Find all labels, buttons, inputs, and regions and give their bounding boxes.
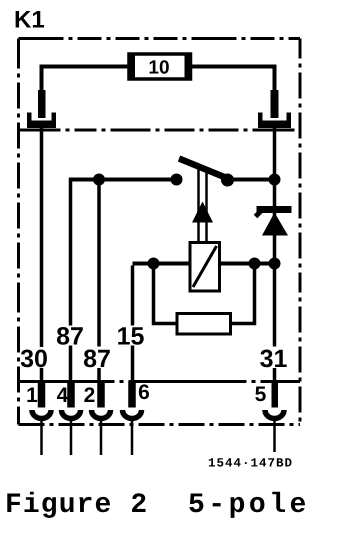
resistor 10 <box>128 53 192 81</box>
junction: pin2 tee on switch feed <box>93 174 105 186</box>
connector pin 2 <box>84 382 111 456</box>
svg-text:Figure 2: Figure 2 <box>5 490 148 521</box>
wire: pin 6 / terminal 15 vertical <box>131 266 135 382</box>
svg-text:30: 30 <box>20 345 48 373</box>
actuator linkage (double line) <box>199 169 207 241</box>
relay coil (box with diagonal) <box>190 243 220 292</box>
svg-text:4: 4 <box>57 384 69 407</box>
switch blade (relay contact) <box>179 159 234 182</box>
switch fixed contact dot <box>171 174 183 186</box>
suppression resistor (parallel with coil) <box>154 264 255 335</box>
diode (zener) on right rail <box>256 206 292 236</box>
wire: pin 5 / terminal 31 vertical (right rail) <box>273 127 277 382</box>
junction A: suppression resistor left tap <box>148 258 160 270</box>
connector pin 4 <box>57 382 81 456</box>
plug terminal (top left) <box>27 90 56 128</box>
enclosure inner partition line (top, dash-dot) <box>19 129 301 132</box>
svg-text:10: 10 <box>148 58 169 79</box>
wire: pin 1 / terminal 30 vertical <box>40 127 44 382</box>
svg-text:87: 87 <box>83 345 111 373</box>
actuator arrow head <box>192 202 213 223</box>
svg-text:6: 6 <box>138 381 150 404</box>
switch pivot dot <box>221 174 234 187</box>
svg-text:5-pole: 5-pole <box>188 490 310 521</box>
svg-text:31: 31 <box>260 345 288 373</box>
junction: right rail at coil wire <box>269 258 281 270</box>
svg-text:K1: K1 <box>14 7 45 34</box>
wire: switch feed horizontal <box>71 178 179 182</box>
svg-text:15: 15 <box>117 323 145 351</box>
plug terminal (top right) <box>258 90 291 128</box>
connector pin 5 <box>255 382 284 453</box>
relay K1 enclosure (dash-dot box) <box>19 39 301 425</box>
svg-text:2: 2 <box>84 384 96 407</box>
wire: pin 4 / terminal 87 vertical <box>69 178 73 382</box>
svg-text:1544·147BD: 1544·147BD <box>208 457 293 471</box>
wire: coil row horizontal (right) <box>220 262 275 266</box>
junction: right rail at switch wire <box>269 174 281 186</box>
wire: coil row horizontal (left) <box>133 262 191 266</box>
wire: top loop from terminal to resistor 10 <box>42 67 275 93</box>
svg-text:5: 5 <box>255 383 267 406</box>
connector pin 6 <box>123 381 150 455</box>
wire: pivot to right rail <box>227 178 275 182</box>
enclosure inner partition line (bottom, dash-dot) <box>19 380 301 383</box>
connector pin 1 <box>26 382 51 456</box>
wire: pin 2 / terminal 87b vertical <box>97 181 101 382</box>
svg-text:1: 1 <box>26 384 38 407</box>
svg-text:87: 87 <box>56 323 84 351</box>
junction B: suppression resistor right tap <box>249 258 261 270</box>
